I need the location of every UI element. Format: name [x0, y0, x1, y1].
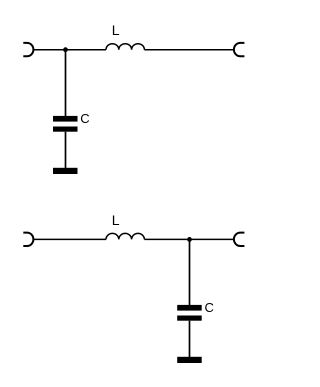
wire: top-left port to inductor	[34, 49, 107, 51]
svg-text:L: L	[112, 22, 120, 38]
port P2 (top-right terminal)	[234, 43, 244, 56]
inductor L (bottom)	[106, 233, 144, 239]
wire: bottom inductor to right port	[144, 238, 234, 240]
node: top junction dot	[63, 47, 68, 52]
wire: top capacitor to ground	[65, 132, 67, 168]
wire: bottom junction down to capacitor	[189, 239, 191, 305]
ground (bottom)	[177, 357, 202, 363]
wire: top inductor to right port	[144, 49, 234, 51]
port P4 (bottom-right terminal)	[234, 233, 244, 246]
wire: top junction down to capacitor	[65, 50, 67, 116]
wire: bottom capacitor to ground	[189, 321, 191, 357]
svg-text:C: C	[80, 111, 89, 126]
svg-text:C: C	[205, 300, 214, 315]
ground (top)	[53, 168, 78, 174]
port P3 (bottom-left terminal)	[23, 233, 33, 246]
node: bottom junction dot	[187, 237, 192, 242]
wire: bottom-left port to inductor	[34, 238, 107, 240]
inductor L (top)	[106, 44, 144, 50]
port P1 (top-left terminal)	[23, 43, 33, 56]
svg-text:L: L	[112, 212, 120, 228]
capacitor C (top)	[53, 116, 78, 132]
capacitor C (bottom)	[177, 305, 202, 321]
